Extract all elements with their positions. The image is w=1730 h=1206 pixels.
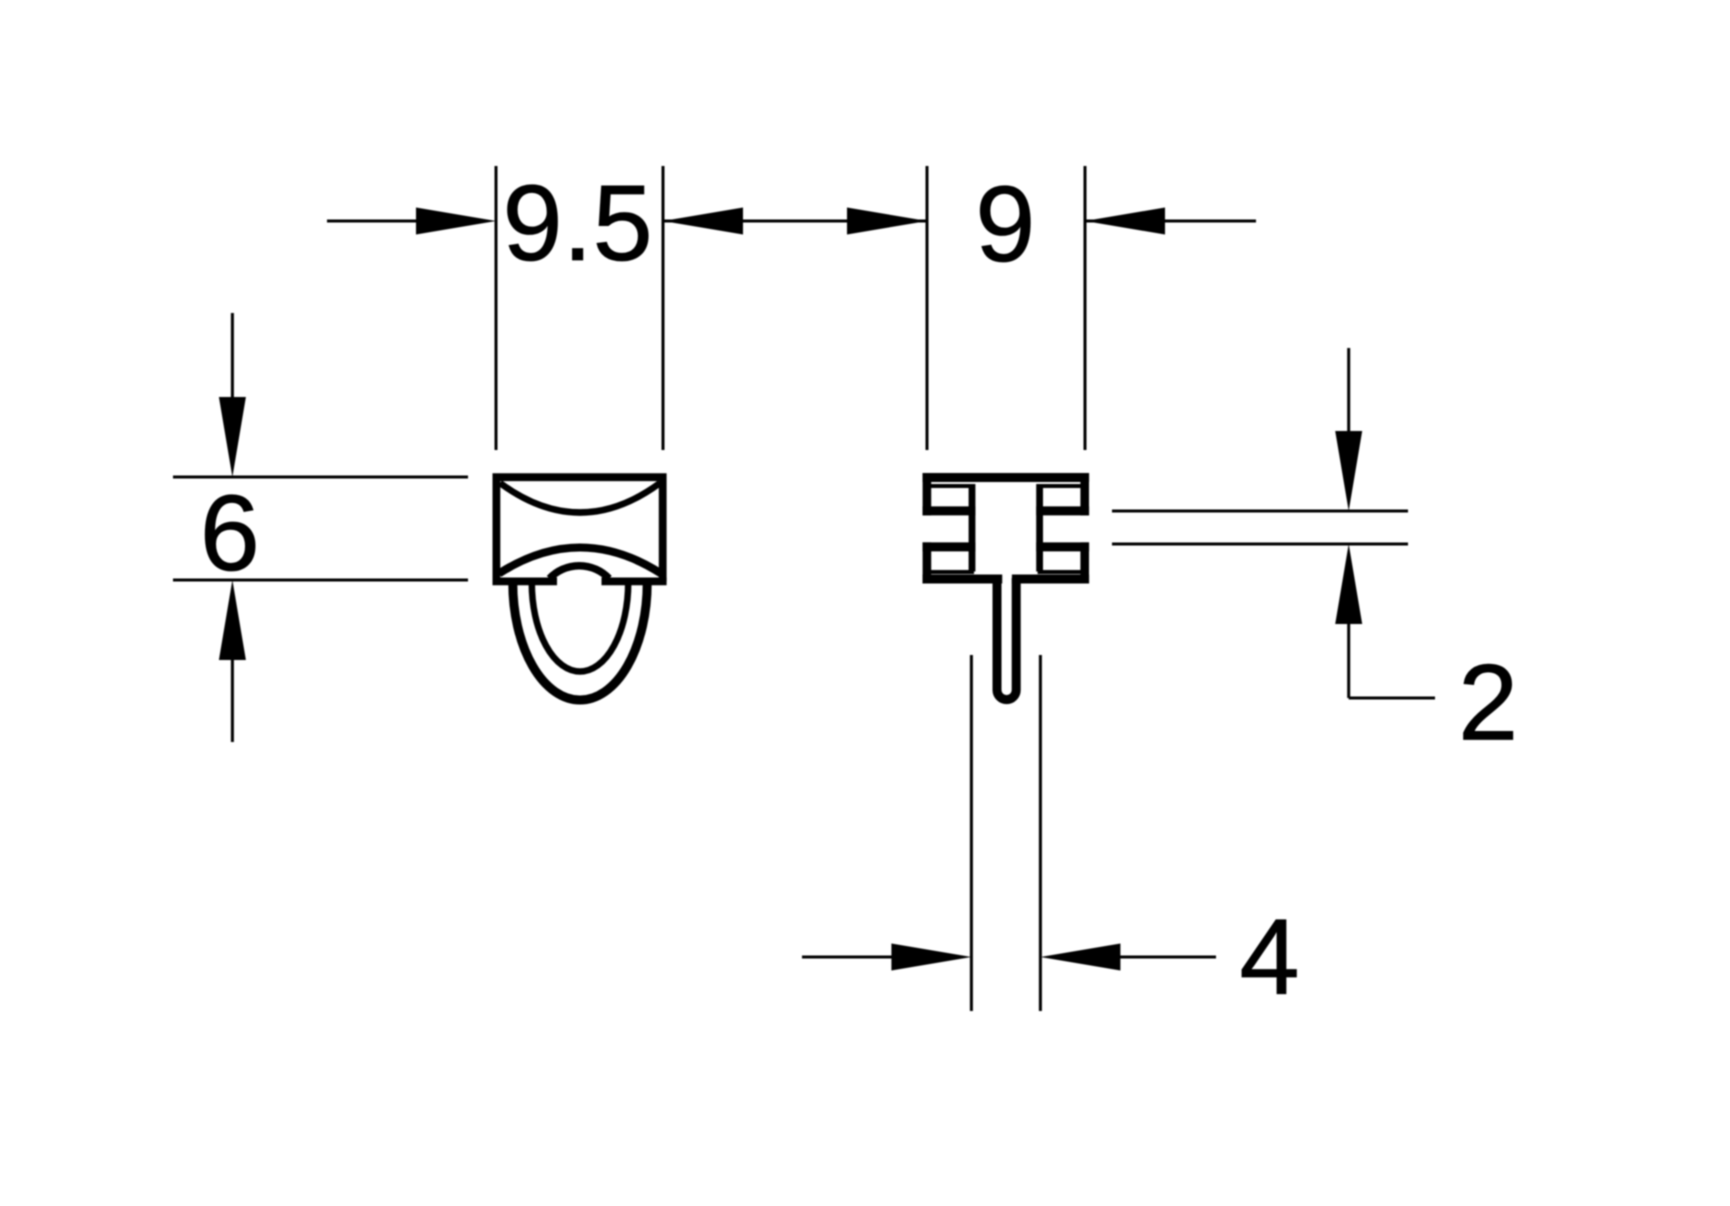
svg-text:2: 2	[1458, 642, 1518, 763]
svg-text:9.5: 9.5	[503, 162, 653, 283]
svg-text:9: 9	[975, 163, 1035, 284]
svg-text:4: 4	[1239, 896, 1299, 1017]
svg-text:6: 6	[200, 472, 260, 593]
